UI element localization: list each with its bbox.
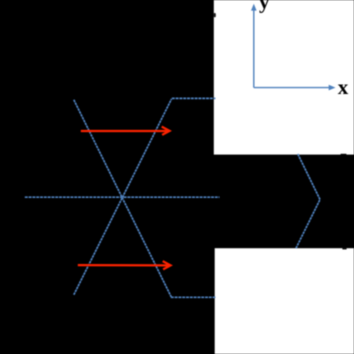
mark nub above bottom panel [342,248,346,249]
wire backslash diagonal [74,100,171,297]
arrow lower red [78,261,171,269]
axis y [253,10,255,88]
axis x [254,87,331,89]
wire top horizontal segment [172,97,216,99]
wire chevron polyline [296,154,320,249]
white panel bottom-right [215,248,354,354]
white panel top-right [214,0,354,155]
wire central horizontal dashed line [25,196,220,198]
svg-text:x: x [338,75,349,99]
mark nub under top panel [341,154,347,155]
arrow upper red [81,127,170,135]
svg-text:y: y [259,0,270,14]
mark speck on panel edge [214,13,216,17]
wire bottom horizontal segment [171,296,216,298]
wire slash diagonal [74,99,172,295]
